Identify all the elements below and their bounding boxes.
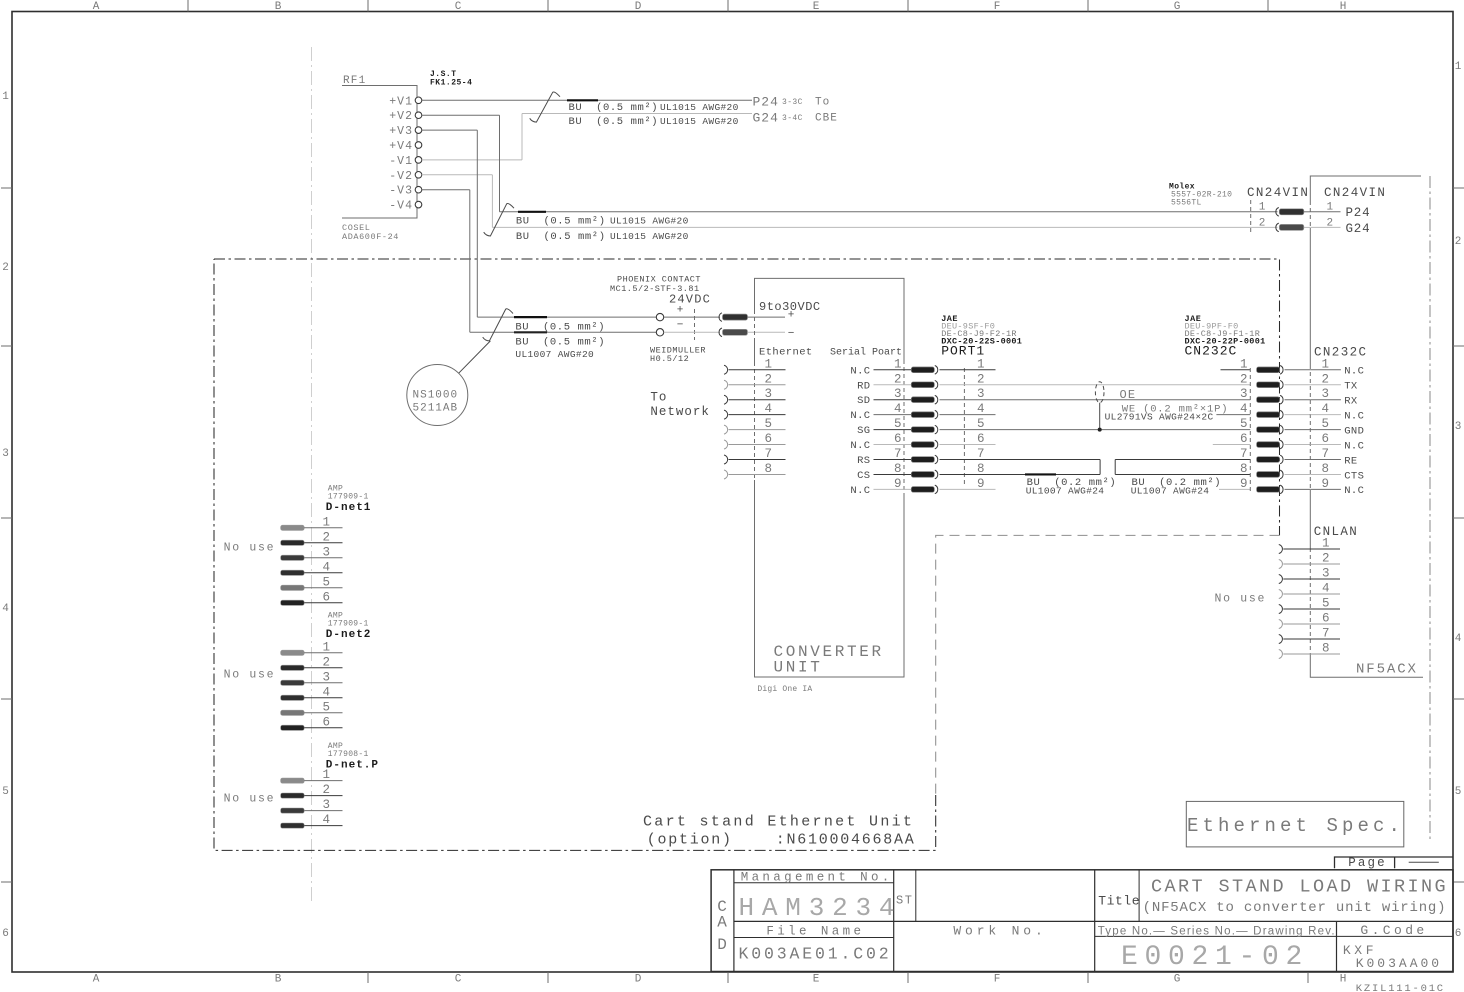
svg-text:8: 8 [977,462,985,476]
wire CN232C-7 into NF5ACX [1285,459,1311,461]
wire + Phoenix to converter [664,316,720,318]
converter box dashed edge segments [754,310,756,340]
svg-text:N.C: N.C [1344,366,1364,378]
shield drain wire to SG [1099,403,1101,430]
svg-text:3: 3 [1455,421,1462,433]
svg-text:PORT1: PORT1 [941,344,985,359]
wire bold mark 24VDC - [514,331,547,333]
svg-text:4: 4 [1240,402,1248,416]
svg-text:UL1015 AWG#20: UL1015 AWG#20 [610,231,689,242]
svg-text:BU (0.5 mm²): BU (0.5 mm²) [569,116,659,128]
svg-text:4: 4 [977,402,985,416]
note box Ethernet Spec. [1186,801,1404,847]
ferrule contact + (into converter) [723,314,748,320]
svg-text:24VDC: 24VDC [669,293,711,307]
wire PORT1-4 stub [940,414,996,416]
wire -V1 riser to G24 [422,159,522,161]
svg-text:G: G [1174,1,1181,13]
svg-text:7: 7 [894,447,902,461]
contact PORT1-3 [911,397,934,403]
svg-text:SG: SG [857,425,870,437]
svg-text:5211AB: 5211AB [413,403,459,415]
pin 2 D-net1 [281,540,305,545]
svg-text:F: F [994,1,1001,13]
pin 5 D-net1 [281,585,305,590]
ferrite core NS1000 5211AB circle [407,365,468,426]
svg-text:5: 5 [977,417,985,431]
title block inner lines [733,870,735,972]
wire +V3 to 24VDC + [422,129,478,131]
svg-text:+: + [788,310,795,322]
svg-text:177909-1: 177909-1 [328,493,369,502]
svg-text:-V3: -V3 [389,185,413,198]
svg-text:2: 2 [977,372,985,386]
svg-text:+V4: +V4 [389,140,413,153]
wire CN24VIN-1 into NF5ACX [1304,211,1311,213]
pin 2 D-net2 [281,665,305,670]
contact PORT1-4 [911,412,934,418]
svg-text:Management No.: Management No. [741,871,893,885]
wire CN232C-6 into NF5ACX [1285,444,1311,446]
svg-text:D-net2: D-net2 [326,629,372,641]
svg-text:H0.5/12: H0.5/12 [650,354,689,364]
pin 3 Ethernet port [724,395,728,404]
svg-text:D: D [635,1,642,13]
svg-text:4: 4 [323,685,331,699]
svg-text:N.C: N.C [850,410,870,422]
pin 8 Ethernet port [724,470,728,479]
wire + stub into converter [748,316,786,318]
svg-text:5556TL: 5556TL [1171,199,1202,208]
twisted pair shield ellipse [1095,382,1104,403]
wire bold mark P24 [567,99,598,101]
svg-text:1: 1 [323,768,331,782]
wire - stub into converter [748,331,786,333]
plug contact CN24VIN-2 [1279,224,1304,230]
svg-text:D-net.P: D-net.P [326,760,379,772]
svg-text:6: 6 [1455,928,1462,940]
svg-text:G: G [1174,974,1181,986]
svg-text:9: 9 [977,477,985,491]
svg-text:CTS: CTS [1344,470,1364,482]
svg-text:2: 2 [323,655,331,669]
pin 1 CNLAN [1279,545,1283,554]
pin 4 Ethernet port [724,410,728,419]
pin 2 CNLAN [1279,560,1283,569]
svg-text:G24: G24 [1346,222,1371,236]
contact PORT1-2 [911,382,934,388]
wire CN232C-1 stub [1221,369,1251,371]
title block outline [711,870,1453,972]
svg-text:NF5ACX: NF5ACX [1356,662,1418,678]
svg-text:Work No.: Work No. [953,923,1046,938]
svg-text:4: 4 [1322,582,1330,596]
svg-text:5: 5 [1240,417,1248,431]
svg-text:UL1007 AWG#24: UL1007 AWG#24 [1131,486,1210,497]
wire SD PORT1-3 to CN232C-3 [940,399,1251,401]
svg-text:1: 1 [323,640,331,654]
svg-text:4: 4 [1455,633,1462,645]
svg-text:2: 2 [894,372,902,386]
svg-text:7: 7 [1322,447,1330,461]
svg-text:G24: G24 [753,111,779,126]
pin 3 D-net1 [281,555,305,560]
svg-text:K003AA00: K003AA00 [1356,956,1442,971]
svg-text:Digi One IA: Digi One IA [757,685,812,694]
pin 7 Ethernet port [724,455,728,464]
svg-text:1: 1 [1322,357,1330,371]
wire CN232C-2 into NF5ACX [1285,384,1311,386]
cable slash 24VDC wires [483,309,513,341]
svg-text:9: 9 [1322,477,1330,491]
svg-text:1: 1 [323,515,331,529]
svg-text:5: 5 [323,700,331,714]
cable slash P24/G24 [530,92,560,122]
svg-text:D: D [635,974,642,986]
svg-text:CS: CS [857,470,870,482]
svg-text:OE: OE [1120,388,1137,402]
svg-text:B: B [275,974,282,986]
pin 5 D-net2 [281,710,305,715]
svg-text:UL2791VS AWG#24×2C: UL2791VS AWG#24×2C [1105,412,1214,423]
svg-text:-V4: -V4 [389,200,413,213]
wire CN232C-9 stub [1219,488,1250,490]
pin 5 CNLAN [1279,605,1283,614]
pin 8 CNLAN [1279,650,1283,659]
svg-text:2: 2 [323,783,331,797]
svg-text:1: 1 [1259,202,1266,214]
pin 1 D-net.P [281,778,305,783]
svg-text:BU (0.5 mm²): BU (0.5 mm²) [515,336,605,348]
svg-text:7: 7 [1322,627,1330,641]
continuation boundary dash-dot right [1429,176,1431,842]
separator dashed CN232C [1249,368,1251,492]
svg-text:BU (0.5 mm²): BU (0.5 mm²) [516,231,606,243]
wire PORT1-6 stub [940,444,996,446]
svg-text:+: + [677,305,684,317]
contact CN232C-2 [1257,382,1280,388]
pin 1 D-net1 [281,525,305,530]
svg-text:6: 6 [1322,612,1330,626]
pin 3 D-net2 [281,680,305,685]
svg-text:CART STAND LOAD WIRING: CART STAND LOAD WIRING [1151,877,1448,898]
wire +V2 to CN24VIN pin1 [422,114,500,116]
svg-text:1: 1 [2,91,9,103]
svg-text:A: A [717,914,727,932]
svg-text:BU (0.5 mm²): BU (0.5 mm²) [569,102,659,114]
contact CN232C-9 [1257,487,1280,493]
svg-text:Type No.— Series No.— Drawing: Type No.— Series No.— Drawing Rev. [1098,926,1336,938]
svg-text:KZIL111-01C: KZIL111-01C [1356,983,1445,992]
svg-text:6: 6 [323,590,331,604]
svg-text:B: B [275,1,282,13]
wire SG PORT1-5 to CN232C-5 [940,429,1251,431]
pin 1 Ethernet port [724,365,728,374]
wire CN232C-7 (right half) [1115,459,1250,461]
svg-text:No use: No use [1215,593,1267,606]
svg-text:3: 3 [1240,387,1248,401]
pin 6 CNLAN [1279,620,1283,629]
wire RD PORT1-2 to CN232C-2 [940,384,1251,386]
ruler ticks left [1,187,12,189]
contact PORT1-8 [911,472,934,478]
svg-text:UL1015 AWG#20: UL1015 AWG#20 [660,102,739,113]
svg-text:3: 3 [977,387,985,401]
svg-text:N.C: N.C [1344,440,1364,452]
pin 1 D-net2 [281,650,305,655]
vertical centerline (dash-dot) [311,47,313,905]
svg-text:RE: RE [1344,455,1357,467]
ruler ticks right [1453,187,1464,189]
wire bold mark BU left [1025,473,1056,475]
svg-text:2: 2 [1455,236,1462,248]
svg-text:2: 2 [1322,372,1330,386]
svg-text:177908-1: 177908-1 [328,750,369,759]
wire -V3 to 24VDC - [422,189,470,191]
svg-text:GND: GND [1344,425,1364,437]
svg-text:7: 7 [1240,447,1248,461]
svg-text:UL1015 AWG#20: UL1015 AWG#20 [610,216,689,227]
cable end join right [1114,460,1116,475]
svg-text:Page: Page [1348,856,1386,870]
contact PORT1-9 [911,487,934,493]
plug contact CN24VIN-1 [1279,209,1304,215]
svg-text:CNLAN: CNLAN [1314,525,1359,539]
svg-text:3-4C: 3-4C [782,114,803,123]
svg-text:2: 2 [323,530,331,544]
svg-text:4: 4 [323,813,331,827]
ruler ticks bottom [367,972,369,983]
svg-text:N.C: N.C [850,365,870,377]
svg-text:177909-1: 177909-1 [328,620,369,629]
svg-text:N.C: N.C [1344,485,1364,497]
svg-text:N.C: N.C [1344,410,1364,422]
svg-text:1: 1 [1455,61,1462,73]
wire CN232C-8 into NF5ACX [1285,473,1311,475]
contact CN232C-5 [1257,427,1280,433]
svg-text:TX: TX [1344,381,1358,393]
svg-text:Cart stand Ethernet Unit: Cart stand Ethernet Unit [643,814,914,831]
svg-text:3-3C: 3-3C [782,98,803,107]
svg-text:No use: No use [224,793,276,806]
wire CN24VIN-2 into NF5ACX [1304,226,1311,228]
svg-text:6: 6 [894,432,902,446]
junction dot on SG wire [1098,428,1102,432]
page box [1335,857,1454,868]
svg-text:RD: RD [857,380,870,392]
svg-text:8: 8 [765,462,773,476]
pin 7 CNLAN [1279,635,1283,644]
pin 4 D-net2 [281,695,305,700]
svg-text:HAM3234: HAM3234 [739,893,903,923]
svg-text:+V3: +V3 [389,125,413,138]
svg-text:Ethernet Spec.: Ethernet Spec. [1187,815,1404,837]
svg-text:FK1.25-4: FK1.25-4 [430,79,472,88]
pin 4 CNLAN [1279,590,1283,599]
svg-text:P24: P24 [753,95,779,110]
svg-text:2: 2 [2,262,9,274]
svg-text:+V2: +V2 [389,110,413,123]
svg-text:-V1: -V1 [389,155,413,168]
svg-text:NS1000: NS1000 [413,390,459,402]
terminal circle - (Phoenix) [656,329,663,336]
svg-text:7: 7 [765,447,773,461]
separator dashed PORT1 [963,368,965,485]
svg-text:RX: RX [1344,396,1358,408]
pin 3 D-net.P [281,808,305,813]
svg-text:6: 6 [765,432,773,446]
svg-text:5: 5 [2,786,9,798]
svg-text:UL1007 AWG#24: UL1007 AWG#24 [1026,486,1105,497]
wire CN232C-1 into NF5ACX [1285,369,1311,371]
svg-text:Title: Title [1098,893,1140,908]
svg-text:UNIT: UNIT [774,659,823,677]
wire bold mark 24VDC + [514,316,547,318]
svg-text:E: E [813,974,820,986]
separator dashed Phoenix [694,309,696,340]
svg-text:D: D [717,936,727,954]
svg-text:3: 3 [323,670,331,684]
svg-text:3: 3 [2,448,9,460]
svg-text:8: 8 [1240,462,1248,476]
svg-text:3: 3 [323,545,331,559]
wire PORT1-9 stub [940,488,996,490]
svg-text:To: To [650,391,667,405]
pin 4 D-net.P [281,823,305,828]
svg-text:RS: RS [857,455,870,467]
svg-text:H: H [1340,1,1347,13]
svg-text:(option) :N610004668AA: (option) :N610004668AA [647,832,916,849]
wire CN232C-4 stub [1216,414,1250,416]
svg-text:PHOENIX CONTACT: PHOENIX CONTACT [617,275,701,285]
contact CN232C-1 [1257,367,1280,373]
svg-text:BU (0.5 mm²): BU (0.5 mm²) [515,322,605,334]
wire +V1 to P24 [422,99,752,101]
svg-text:CN24VIN: CN24VIN [1324,186,1386,200]
svg-text:5: 5 [1455,786,1462,798]
svg-text:-V2: -V2 [389,170,413,183]
converter unit box outline [755,278,905,677]
svg-text:6: 6 [2,928,9,940]
wire RS PORT1-7 (left half) [940,459,1101,461]
svg-text:1: 1 [1322,537,1330,551]
svg-text:D-net1: D-net1 [326,502,372,514]
contact PORT1-5 [911,427,934,433]
svg-text:7: 7 [977,447,985,461]
svg-text:−: − [788,328,795,340]
svg-text:3: 3 [894,387,902,401]
contact CN232C-7 [1257,457,1280,463]
svg-text:3: 3 [765,387,773,401]
wire CN232C-3 into NF5ACX [1285,399,1311,401]
svg-text:−: − [677,320,684,332]
pin 6 D-net1 [281,600,305,605]
wire CN232C-9 into NF5ACX [1285,488,1311,490]
svg-text:CN232C: CN232C [1185,344,1238,359]
svg-text:3: 3 [323,798,331,812]
svg-text:N.C: N.C [850,440,870,452]
NF5ACX box dashed edge segments [1309,201,1311,228]
contact PORT1-6 [911,442,934,448]
wire CN232C-5 into NF5ACX [1285,429,1311,431]
svg-text:8: 8 [1322,642,1330,656]
unit NF5ACX box outline [1310,176,1423,677]
cable slash CN24VIN wires [484,203,514,236]
svg-text:E: E [813,1,820,13]
svg-text:CN24VIN: CN24VIN [1247,186,1309,200]
svg-text:6: 6 [1240,432,1248,446]
svg-text:6: 6 [323,715,331,729]
contact CN232C-8 [1257,472,1280,478]
pin 6 D-net2 [281,725,305,730]
svg-text:K003AE01.C02: K003AE01.C02 [739,945,892,964]
svg-text:A: A [93,974,100,986]
svg-text:RF1: RF1 [343,75,366,87]
svg-text:To: To [815,97,830,109]
svg-text:2: 2 [765,372,773,386]
pin 2 Ethernet port [724,380,728,389]
wire CN232C-8 (right half) [1115,473,1250,475]
svg-text:2: 2 [1259,218,1266,230]
svg-text:1: 1 [765,357,773,371]
ruler ticks top [187,0,189,12]
svg-text:6: 6 [1322,432,1330,446]
svg-text:5: 5 [1322,597,1330,611]
svg-text:BU (0.5 mm²): BU (0.5 mm²) [516,216,606,228]
svg-text:N.C: N.C [850,485,870,497]
svg-text:1: 1 [977,357,985,371]
svg-text:G.Code: G.Code [1360,923,1427,938]
contact CN232C-6 [1257,442,1280,448]
cable end join left [1099,460,1101,475]
contact CN232C-4 [1257,412,1280,418]
contact PORT1-1 [911,367,934,373]
leader line NS1000 to cable [459,341,491,373]
contact PORT1-7 [911,457,934,463]
svg-text:3: 3 [1322,387,1330,401]
svg-text:1: 1 [1240,357,1248,371]
separator dashed CN24VIN [1250,200,1252,233]
ferrule contact - (into converter) [723,329,748,335]
wire bold mark CN24VIN pin1 [518,211,546,213]
wire -V2 to CN24VIN pin2 [422,174,493,176]
svg-text:8: 8 [894,462,902,476]
svg-text:8: 8 [1322,462,1330,476]
wire PORT1-1 stub [940,369,996,371]
pin 5 Ethernet port [724,425,728,434]
svg-text:5: 5 [765,417,773,431]
contact CN232C-3 [1257,397,1280,403]
svg-text:No use: No use [224,669,276,682]
svg-text:UL1015 AWG#20: UL1015 AWG#20 [660,116,739,127]
pin 2 D-net.P [281,793,305,798]
svg-text:SD: SD [857,395,870,407]
svg-text:6: 6 [977,432,985,446]
svg-text:4: 4 [1322,402,1330,416]
svg-text:5: 5 [323,575,331,589]
page number dash [1409,861,1439,863]
pin 3 CNLAN [1279,575,1283,584]
svg-text:3: 3 [1322,567,1330,581]
svg-text:Serial Poart: Serial Poart [830,347,902,359]
svg-text:UL1007 AWG#20: UL1007 AWG#20 [515,349,594,360]
svg-text:2: 2 [1240,372,1248,386]
svg-text:5: 5 [1322,417,1330,431]
wire CN232C-6 stub [1213,444,1251,446]
pin 6 Ethernet port [724,440,728,449]
svg-text:A: A [93,1,100,13]
svg-text:C: C [455,974,462,986]
